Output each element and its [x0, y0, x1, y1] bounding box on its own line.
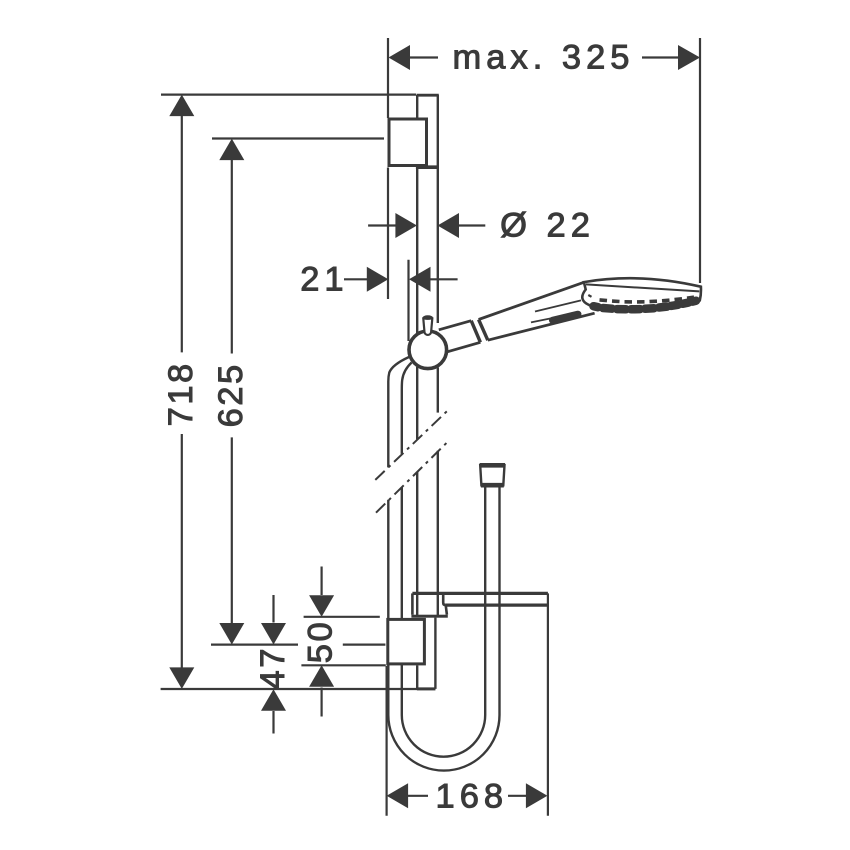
svg-text:625: 625: [212, 362, 250, 427]
svg-text:168: 168: [436, 778, 509, 816]
svg-text:21: 21: [300, 261, 348, 299]
svg-text:max. 325: max. 325: [453, 39, 635, 77]
svg-text:50: 50: [302, 620, 340, 663]
svg-text:Ø 22: Ø 22: [500, 207, 595, 245]
svg-text:718: 718: [162, 361, 200, 426]
svg-text:47: 47: [254, 646, 292, 689]
